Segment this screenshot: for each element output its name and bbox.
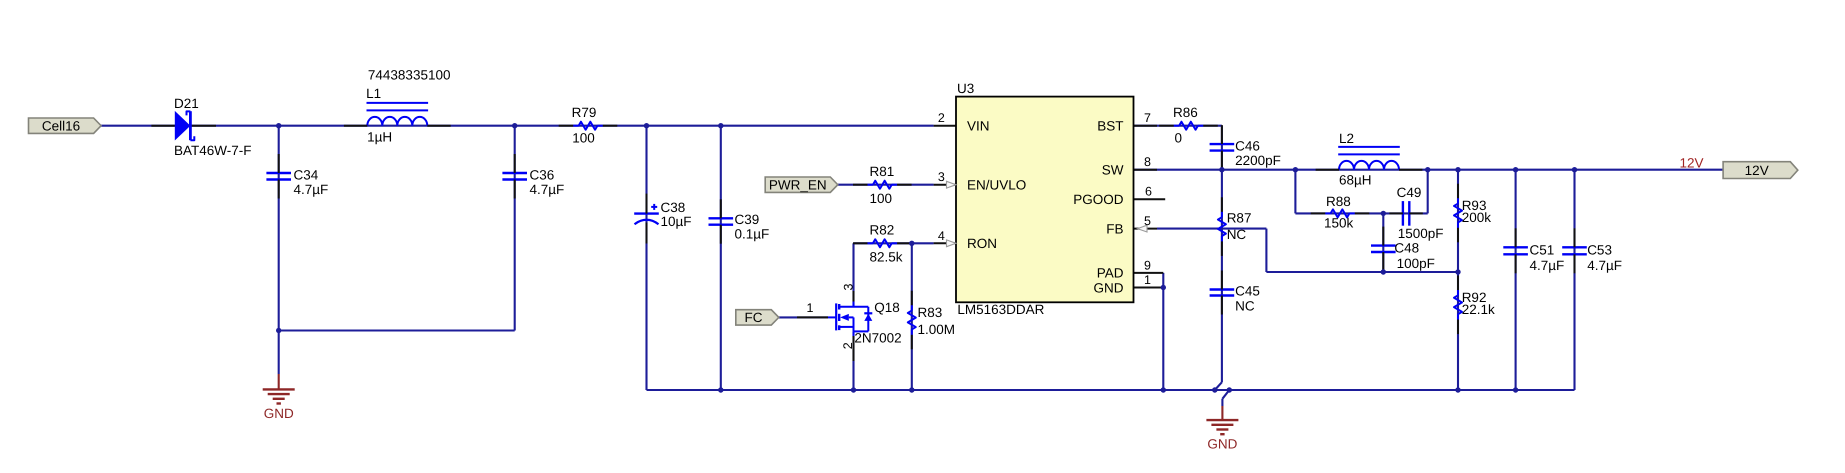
svg-text:D21: D21: [174, 96, 199, 111]
svg-text:C36: C36: [530, 168, 555, 183]
svg-text:FB: FB: [1106, 221, 1123, 236]
svg-text:C39: C39: [735, 212, 760, 227]
svg-text:1.00M: 1.00M: [918, 322, 956, 337]
svg-text:8: 8: [1144, 155, 1151, 169]
svg-text:C53: C53: [1587, 243, 1612, 258]
svg-text:2200pF: 2200pF: [1235, 153, 1281, 168]
svg-text:Cell16: Cell16: [42, 119, 80, 134]
svg-text:C34: C34: [294, 168, 319, 183]
svg-text:R87: R87: [1227, 211, 1252, 226]
svg-text:1: 1: [1144, 273, 1151, 287]
svg-text:RON: RON: [967, 236, 997, 251]
svg-text:PWR_EN: PWR_EN: [769, 178, 827, 193]
svg-text:12V: 12V: [1680, 155, 1704, 170]
svg-text:22.1k: 22.1k: [1462, 302, 1495, 317]
svg-text:82.5k: 82.5k: [870, 249, 903, 264]
svg-text:L2: L2: [1339, 131, 1354, 146]
svg-text:GND: GND: [1094, 280, 1124, 295]
svg-text:U3: U3: [957, 81, 974, 96]
svg-text:100: 100: [572, 131, 595, 146]
svg-text:PGOOD: PGOOD: [1073, 192, 1124, 207]
svg-text:4.7µF: 4.7µF: [294, 182, 329, 197]
svg-text:3: 3: [841, 284, 855, 291]
svg-text:100: 100: [870, 191, 893, 206]
svg-text:74438335100: 74438335100: [368, 67, 451, 82]
svg-text:1500pF: 1500pF: [1398, 226, 1444, 241]
svg-text:4: 4: [938, 229, 945, 243]
svg-text:VIN: VIN: [967, 119, 990, 134]
svg-text:4.7µF: 4.7µF: [1587, 258, 1622, 273]
svg-text:SW: SW: [1102, 163, 1124, 178]
svg-text:R79: R79: [572, 105, 597, 120]
svg-text:EN/UVLO: EN/UVLO: [967, 178, 1026, 193]
svg-text:R83: R83: [918, 305, 943, 320]
svg-text:BAT46W-7-F: BAT46W-7-F: [174, 143, 252, 158]
svg-text:GND: GND: [264, 406, 294, 421]
svg-text:7: 7: [1144, 111, 1151, 125]
svg-text:4.7µF: 4.7µF: [1530, 258, 1565, 273]
svg-text:1µH: 1µH: [367, 129, 392, 144]
svg-text:C38: C38: [661, 200, 686, 215]
svg-text:R81: R81: [870, 164, 895, 179]
svg-text:3: 3: [938, 170, 945, 184]
svg-text:C51: C51: [1530, 243, 1555, 258]
svg-text:C46: C46: [1235, 139, 1260, 154]
svg-text:0: 0: [1175, 131, 1183, 146]
svg-text:R82: R82: [870, 223, 895, 238]
svg-text:2N7002: 2N7002: [854, 330, 901, 345]
svg-text:GND: GND: [1207, 437, 1237, 452]
svg-text:Q18: Q18: [874, 300, 900, 315]
svg-text:100pF: 100pF: [1397, 256, 1435, 271]
svg-text:9: 9: [1144, 258, 1151, 272]
svg-text:BST: BST: [1097, 119, 1123, 134]
svg-text:150k: 150k: [1324, 216, 1354, 231]
svg-text:C49: C49: [1397, 185, 1422, 200]
svg-text:200k: 200k: [1462, 210, 1492, 225]
svg-text:C45: C45: [1235, 284, 1260, 299]
svg-text:FC: FC: [745, 310, 763, 325]
svg-text:R88: R88: [1326, 194, 1351, 209]
svg-text:4.7µF: 4.7µF: [530, 182, 565, 197]
svg-text:L1: L1: [366, 86, 381, 101]
svg-text:6: 6: [1145, 185, 1152, 199]
svg-text:2: 2: [841, 342, 855, 349]
svg-text:68µH: 68µH: [1339, 173, 1372, 188]
svg-text:1: 1: [807, 301, 814, 315]
svg-text:C48: C48: [1394, 241, 1419, 256]
svg-text:0.1µF: 0.1µF: [735, 226, 770, 241]
svg-text:5: 5: [1144, 214, 1151, 228]
svg-text:2: 2: [938, 111, 945, 125]
svg-text:PAD: PAD: [1097, 266, 1124, 281]
svg-text:NC: NC: [1227, 227, 1247, 242]
svg-text:12V: 12V: [1745, 163, 1769, 178]
svg-text:LM5163DDAR: LM5163DDAR: [957, 302, 1044, 317]
svg-text:NC: NC: [1235, 299, 1255, 314]
svg-text:10µF: 10µF: [661, 214, 692, 229]
svg-text:R86: R86: [1173, 105, 1198, 120]
